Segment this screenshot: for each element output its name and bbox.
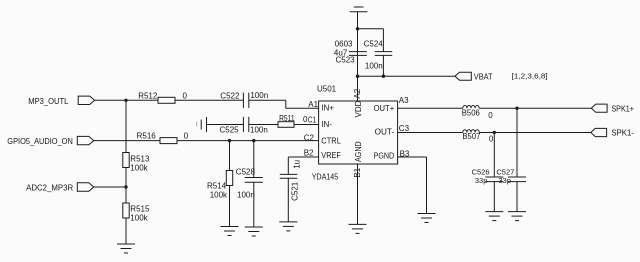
svg-text:B2: B2 [304,148,314,157]
svg-text:C525: C525 [220,126,240,135]
wire C522 to pin A1 [249,100,319,108]
capacitor C524 [364,40,393,71]
svg-text:OUT-: OUT- [375,128,395,137]
wire AGND to ground [357,164,359,224]
svg-text:R512: R512 [138,92,158,101]
svg-text:SPK1-: SPK1- [611,129,634,138]
wire VDD vertical [357,12,359,101]
svg-text:U501: U501 [317,84,337,93]
pin B3 PGND [374,149,410,160]
svg-text:VREF: VREF [321,151,341,160]
svg-text:33p: 33p [475,176,488,185]
wire OUT- row [398,132,463,134]
ground under C527 [508,212,526,221]
pin A3 OUT+ [374,96,410,113]
svg-text:A1: A1 [308,100,318,109]
wire IN- cap to C525 [207,124,244,126]
svg-text:C1: C1 [308,116,317,125]
svg-text:100n: 100n [365,62,383,71]
svg-text:A3: A3 [399,96,409,105]
capacitor unlabeled IN- input [197,117,207,132]
ground under PGND [418,214,436,223]
port ADC2_MP3R [26,183,94,193]
svg-text:IN+: IN+ [321,104,334,113]
svg-text:100n: 100n [237,191,255,200]
resistor R513 [123,153,150,173]
resistor R512 [138,92,187,104]
port SPK1+ [591,104,634,113]
inductor B507 [462,130,494,144]
svg-text:100k: 100k [130,164,148,173]
svg-text:[1,2,3,6,8]: [1,2,3,6,8] [512,72,548,81]
svg-text:IN-: IN- [321,120,332,129]
wire ADC2 to junction [94,186,126,188]
pin A2 VDD [353,88,363,117]
port GPIO5_AUDIO_ON [7,136,93,146]
node R514 junction [228,139,231,142]
wire PGND to ground [398,157,427,214]
svg-text:R515: R515 [130,205,150,214]
capacitor C527 [496,108,526,211]
resistor R515 [123,203,150,223]
node ADC2 junction [124,185,127,188]
svg-text:R516: R516 [137,132,157,141]
wire pulldown chain vertical [125,100,127,152]
svg-text:CTRL: CTRL [321,136,341,145]
port VBAT [455,72,493,81]
wire R511 to pin C1 [294,124,319,126]
svg-text:C524: C524 [364,40,384,49]
power symbol VBAT bar [350,7,368,12]
pin C1 IN- [308,116,333,129]
wire VBAT horizontal [358,75,456,77]
port SPK1- [591,128,634,137]
svg-text:C523: C523 [336,56,356,65]
svg-text:100k: 100k [130,214,148,223]
svg-text:C3: C3 [399,124,410,133]
ground under R515 [117,244,135,253]
svg-text:100n: 100n [250,91,268,100]
capacitor C522 [220,91,268,108]
capacitor C526 [472,133,504,212]
node VDD top junction [356,27,359,30]
node MP3 junction [124,99,127,102]
port MP3_OUTL [28,96,94,106]
svg-text:R513: R513 [130,155,150,164]
pin A1 IN+ [308,100,334,112]
svg-text:0603: 0603 [335,40,353,49]
svg-text:SPK1+: SPK1+ [611,104,634,113]
wire C525 to R511 [249,124,278,126]
wire C524 bottom [382,55,384,76]
svg-text:B506: B506 [462,109,481,118]
svg-text:0: 0 [488,111,493,120]
node C528 junction [252,139,255,142]
svg-text:VBAT: VBAT [474,73,493,82]
svg-text:GPIO5_AUDIO_ON: GPIO5_AUDIO_ON [7,137,73,146]
node junction C524 bottom [382,75,385,78]
wire VREF to C521 [288,157,318,174]
wire B507 to SPK1- [479,132,591,134]
svg-text:0: 0 [489,135,494,144]
svg-text:OUT+: OUT+ [374,104,395,113]
resistor R514 [207,141,233,227]
svg-text:33p: 33p [498,176,511,185]
svg-text:C2: C2 [304,133,315,142]
ground under R514 [221,227,239,236]
svg-text:AGND: AGND [354,141,363,162]
resistor R511 [278,114,308,127]
inductor B506 [462,105,493,120]
svg-text:ADC2_MP3R: ADC2_MP3R [26,184,73,193]
wire CTRL row [177,140,319,142]
svg-text:VDD: VDD [354,100,363,117]
capacitor C523 [334,40,367,65]
wire R513 to R515 [125,168,127,204]
pin C3 OUT- [375,124,410,136]
ground under C521 [279,222,297,231]
pin B1 AGND [353,141,363,177]
op-amp U501 YDA145 body [312,84,398,181]
svg-text:R514: R514 [207,182,227,191]
svg-text:C528: C528 [236,168,256,177]
svg-text:R511: R511 [279,114,295,123]
wire R512 to C522 [175,99,243,101]
pin C2 CTRL [304,133,342,145]
svg-text:0: 0 [183,92,188,101]
ground under C528 [245,227,263,236]
svg-text:100n: 100n [250,125,268,134]
svg-text:0: 0 [184,132,189,141]
ground under C526 [485,212,503,221]
svg-text:1u: 1u [293,160,302,169]
node C526 junction [493,131,496,134]
svg-text:100k: 100k [210,191,228,200]
wire GPIO5 to R516 [94,140,160,142]
wire R515 to ground [125,218,127,244]
svg-text:PGND: PGND [374,152,395,161]
node C527 junction [515,107,518,110]
capacitor C521 [280,160,302,222]
capacitor C528 [236,141,263,227]
svg-text:MP3_OUTL: MP3_OUTL [28,97,69,106]
wire branch to C524 [358,29,384,52]
wire B506 to SPK1+ [479,107,591,109]
svg-text:C521: C521 [291,181,300,201]
ground under AGND [349,224,367,233]
svg-text:A2: A2 [353,88,362,98]
resistor R516 [137,132,189,144]
node junction C523 bottom [356,75,359,78]
svg-text:B507: B507 [462,132,481,141]
capacitor C525 [220,117,268,135]
wire OUT+ row [398,107,463,109]
svg-text:YDA145: YDA145 [312,172,339,181]
wire MP3_OUTL to R512 [95,99,158,101]
svg-text:C522: C522 [220,92,240,101]
pin B2 VREF [304,148,341,159]
